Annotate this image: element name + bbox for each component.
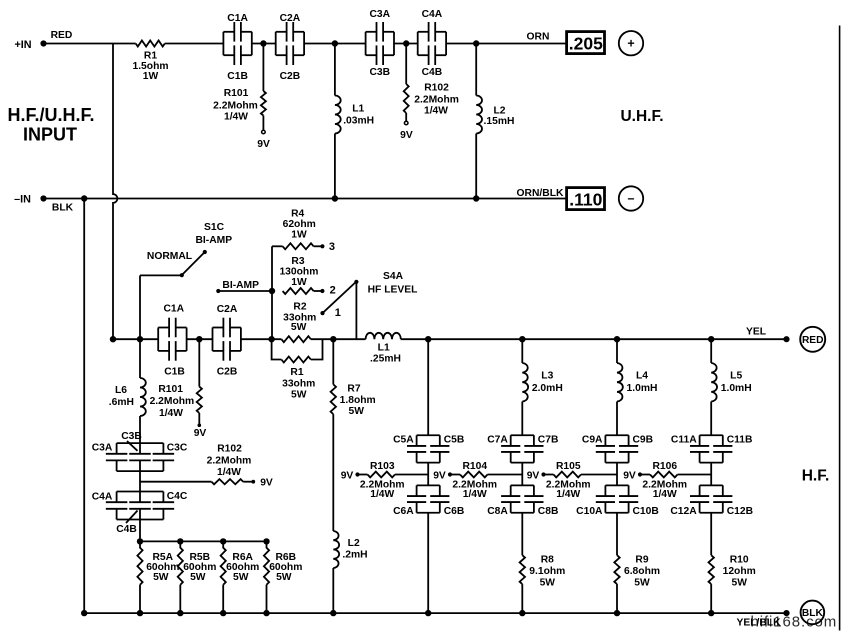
label H.F./U.H.F. INPUT: [7, 105, 94, 145]
svg-text:2: 2: [330, 285, 336, 297]
wire: [710, 402, 712, 436]
svg-text:R4: R4: [291, 209, 304, 220]
capacitor C3A/C3B/C3C bank: [92, 431, 188, 471]
svg-text:.2mH: .2mH: [342, 550, 367, 561]
junction: [403, 40, 409, 46]
svg-text:R2: R2: [293, 302, 306, 313]
resistor R101 (HF): [150, 339, 202, 423]
svg-text:1.0mH: 1.0mH: [627, 383, 658, 394]
wire: [113, 338, 158, 340]
wire: [710, 513, 712, 555]
switch S1C: [140, 222, 232, 339]
svg-text:RED: RED: [51, 30, 73, 41]
svg-text:1.0mH: 1.0mH: [721, 383, 752, 394]
wire: [44, 43, 136, 45]
wire: [710, 463, 712, 486]
svg-text:C9B: C9B: [633, 435, 654, 446]
wire: [616, 513, 618, 555]
wire: [710, 339, 712, 363]
svg-text:9V: 9V: [341, 470, 354, 481]
capacitor C4A/C4B/C4C bank: [92, 491, 188, 535]
svg-text:L4: L4: [636, 371, 648, 382]
svg-text:.25mH: .25mH: [370, 354, 401, 365]
wire: [304, 43, 366, 45]
svg-text:5W: 5W: [291, 322, 307, 333]
junction: [332, 40, 338, 46]
resistor R5A: [137, 541, 179, 613]
wire: [616, 402, 618, 436]
svg-text:R3: R3: [291, 256, 304, 267]
capacitor C12A/C12B: [670, 485, 753, 516]
svg-text:RED: RED: [802, 335, 824, 346]
junction: [473, 195, 479, 201]
wire: [521, 584, 523, 613]
junction: [81, 610, 87, 616]
inductor L6: [109, 339, 146, 416]
node -IN: [14, 194, 74, 214]
svg-text:9V: 9V: [260, 478, 273, 489]
resistor R106: [642, 461, 711, 500]
svg-text:2.2Mohm: 2.2Mohm: [150, 396, 195, 407]
wire: [252, 43, 276, 45]
svg-text:INPUT: INPUT: [23, 125, 77, 145]
pin 3: [320, 241, 335, 253]
wire: [521, 402, 523, 436]
junction: [110, 336, 116, 342]
svg-text:.205: .205: [569, 33, 603, 53]
terminal -: [619, 186, 643, 210]
svg-text:R8: R8: [541, 555, 554, 566]
resistor R6A: [221, 541, 260, 613]
wire: [140, 540, 267, 542]
svg-text:C7B: C7B: [538, 435, 559, 446]
power 9V: [341, 470, 368, 481]
junction: [268, 336, 274, 342]
node YEL: [746, 327, 790, 343]
svg-text:5W: 5W: [153, 572, 169, 583]
svg-text:S4A: S4A: [383, 271, 404, 282]
resistor R5B: [178, 541, 217, 613]
junction: [614, 610, 620, 616]
power 9V: [623, 470, 650, 481]
junction: [330, 610, 336, 616]
wire: [521, 463, 523, 486]
svg-text:ORN/BLK: ORN/BLK: [517, 188, 564, 199]
svg-text:1/4W: 1/4W: [556, 489, 580, 500]
svg-text:C12B: C12B: [727, 506, 753, 517]
svg-text:C10A: C10A: [576, 506, 603, 517]
svg-text:R1: R1: [144, 50, 157, 61]
svg-text:NORMAL: NORMAL: [147, 251, 192, 262]
svg-text:C5A: C5A: [393, 435, 414, 446]
resistor R7: [331, 384, 376, 418]
svg-text:H.F.: H.F.: [802, 467, 830, 484]
svg-text:C8A: C8A: [487, 506, 508, 517]
capacitor C10A/C10B: [576, 485, 659, 516]
svg-text:1W: 1W: [291, 277, 307, 288]
wire: [332, 414, 334, 531]
svg-text:C5B: C5B: [444, 435, 465, 446]
inductor L3: [522, 363, 562, 402]
wire: [83, 199, 85, 614]
svg-text:R9: R9: [635, 555, 648, 566]
svg-text:C2A: C2A: [217, 304, 238, 315]
svg-text:L2: L2: [348, 538, 360, 549]
svg-text:1/4W: 1/4W: [370, 489, 394, 500]
junction: [614, 336, 620, 342]
svg-text:L3: L3: [541, 371, 553, 382]
svg-text:+: +: [627, 37, 634, 51]
svg-text:R103: R103: [370, 461, 395, 472]
power 9V: [251, 478, 273, 489]
capacitor C11A/C11B: [671, 435, 753, 463]
svg-text:C11A: C11A: [671, 435, 697, 446]
terminal RED: [800, 327, 825, 352]
wire: [271, 246, 273, 339]
svg-text:–: –: [628, 191, 635, 205]
svg-text:C3A: C3A: [369, 9, 390, 20]
wire: [113, 44, 117, 340]
svg-text:S1C: S1C: [204, 222, 225, 233]
svg-text:9V: 9V: [527, 470, 540, 481]
svg-text:–IN: –IN: [14, 194, 31, 206]
svg-text:1/4W: 1/4W: [463, 489, 487, 500]
svg-text:C3A: C3A: [92, 443, 113, 454]
wire: [616, 339, 618, 363]
capacitor C2A/C2B: [276, 13, 304, 82]
inductor L2: [476, 44, 514, 199]
svg-text:5W: 5W: [348, 406, 364, 417]
svg-text:130ohm: 130ohm: [279, 267, 318, 278]
junction: [137, 538, 143, 544]
svg-text:L1: L1: [352, 104, 364, 115]
resistor R8: [520, 555, 566, 589]
svg-text:2.2Mohm: 2.2Mohm: [414, 95, 459, 106]
inductor L4: [617, 363, 657, 402]
svg-text:5W: 5W: [291, 390, 307, 401]
node +IN: [14, 30, 72, 51]
junction: [425, 336, 431, 342]
resistor R3: [279, 256, 320, 294]
svg-text:R101: R101: [224, 88, 249, 99]
svg-text:C6B: C6B: [444, 506, 465, 517]
inductor L2 (.2mH): [333, 531, 367, 568]
svg-text:.15mH: .15mH: [484, 116, 515, 127]
svg-text:1/4W: 1/4W: [653, 489, 677, 500]
svg-text:12ohm: 12ohm: [723, 566, 756, 577]
terminal .110: [567, 188, 605, 210]
svg-text:C6A: C6A: [393, 506, 414, 517]
wire: [446, 43, 566, 45]
junction: [177, 538, 183, 544]
svg-text:YEL/BLK: YEL/BLK: [736, 618, 781, 629]
capacitor C9A/C9B: [582, 435, 653, 463]
svg-text:R102: R102: [424, 83, 449, 94]
resistor R102: [404, 44, 459, 122]
svg-text:C2B: C2B: [280, 71, 301, 82]
svg-text:9V: 9V: [623, 470, 636, 481]
terminal +: [619, 31, 643, 55]
wire: [44, 198, 567, 200]
junction: [708, 336, 714, 342]
svg-text:U.H.F.: U.H.F.: [620, 108, 663, 125]
svg-text:5W: 5W: [731, 578, 747, 589]
junction: [519, 610, 525, 616]
svg-text:2.2Mohm: 2.2Mohm: [213, 101, 258, 112]
svg-text:BLK: BLK: [802, 608, 824, 619]
wire: [427, 463, 429, 486]
svg-text:5W: 5W: [540, 578, 556, 589]
junction: [708, 610, 714, 616]
wire: [139, 416, 141, 443]
wire: [332, 568, 334, 613]
svg-text:C4A: C4A: [92, 492, 113, 503]
svg-text:C9A: C9A: [582, 435, 603, 446]
capacitor C1A/C1B: [223, 13, 251, 82]
wire: [394, 43, 418, 45]
wire: [84, 612, 786, 614]
svg-text:9V: 9V: [194, 428, 207, 439]
svg-text:.6mH: .6mH: [109, 397, 134, 408]
pin 2: [320, 285, 335, 297]
terminal BLK: [801, 601, 825, 625]
wire: [427, 339, 429, 435]
svg-text:1/4W: 1/4W: [217, 467, 241, 478]
svg-text:1.8ohm: 1.8ohm: [340, 395, 376, 406]
inductor L1: [335, 44, 374, 199]
svg-text:R106: R106: [652, 461, 677, 472]
svg-text:1W: 1W: [143, 71, 159, 82]
resistor R2: [281, 302, 316, 343]
svg-text:C3B: C3B: [369, 67, 390, 78]
svg-text:C3B: C3B: [121, 431, 142, 442]
svg-text:5W: 5W: [634, 578, 650, 589]
svg-text:C3C: C3C: [167, 443, 188, 454]
capacitor C2A/C2B (HF): [213, 304, 241, 378]
svg-text:2.0mH: 2.0mH: [532, 383, 563, 394]
svg-text:9V: 9V: [400, 130, 413, 141]
svg-text:5W: 5W: [190, 572, 206, 583]
svg-text:1W: 1W: [291, 229, 307, 240]
svg-text:R101: R101: [158, 384, 183, 395]
svg-text:L6: L6: [115, 385, 127, 396]
svg-text:C1A: C1A: [227, 13, 248, 24]
resistor R105: [546, 461, 617, 500]
wire: [427, 513, 429, 613]
svg-text:C2A: C2A: [280, 13, 301, 24]
capacitor C6A/C6B: [393, 485, 464, 516]
svg-text:L1: L1: [378, 343, 390, 354]
svg-text:C8B: C8B: [538, 506, 559, 517]
junction: [332, 195, 338, 201]
svg-text:BI-AMP: BI-AMP: [222, 280, 259, 291]
resistor R6B: [264, 541, 303, 613]
wire: [616, 463, 618, 486]
junction: [473, 40, 479, 46]
resistor R103: [360, 461, 428, 500]
svg-text:R7: R7: [347, 384, 360, 395]
resistor R101: [213, 44, 266, 131]
svg-text:R102: R102: [217, 444, 242, 455]
switch S4A: [320, 271, 417, 339]
svg-text:R1: R1: [290, 367, 303, 378]
svg-text:ORN: ORN: [527, 32, 550, 43]
inductor L5: [711, 363, 751, 402]
inductor L1 (.25mH): [366, 333, 401, 365]
node YEL/BLK: [736, 610, 789, 629]
junction: [330, 336, 336, 342]
junction: [425, 610, 431, 616]
svg-text:C4B: C4B: [116, 524, 137, 535]
svg-text:C1A: C1A: [163, 304, 184, 315]
svg-text:+IN: +IN: [14, 39, 31, 51]
capacitor C7A/C7B: [487, 435, 558, 463]
svg-text:9V: 9V: [257, 139, 270, 150]
junction: [519, 336, 525, 342]
power 9V: [257, 130, 270, 150]
junction: [220, 538, 226, 544]
junction: [260, 40, 266, 46]
svg-text:2.2Mohm: 2.2Mohm: [207, 456, 252, 467]
capacitor C1A/C1B (HF): [158, 304, 186, 378]
wire: [616, 584, 618, 613]
svg-text:C2B: C2B: [217, 367, 238, 378]
svg-text:33ohm: 33ohm: [282, 379, 315, 390]
svg-text:6.8ohm: 6.8ohm: [624, 566, 660, 577]
wire: [710, 584, 712, 613]
junction: [220, 610, 226, 616]
svg-text:L2: L2: [494, 106, 506, 117]
svg-text:C1B: C1B: [227, 71, 248, 82]
svg-text:1/4W: 1/4W: [159, 408, 183, 419]
terminal .205: [567, 32, 605, 54]
svg-text:R10: R10: [730, 555, 749, 566]
wire: [165, 43, 224, 45]
svg-text:C10B: C10B: [633, 506, 659, 517]
power 9V: [400, 121, 413, 141]
resistor R4: [272, 209, 321, 250]
resistor R1: [132, 41, 168, 83]
wire: [521, 339, 523, 363]
capacitor C5A/C5B: [393, 435, 464, 463]
svg-text:9V: 9V: [433, 470, 446, 481]
junction: [81, 195, 87, 201]
resistor R10: [709, 555, 756, 589]
wire: [521, 513, 523, 555]
svg-text:9.1ohm: 9.1ohm: [529, 566, 565, 577]
junction: [137, 610, 143, 616]
svg-text:HF LEVEL: HF LEVEL: [368, 285, 418, 296]
svg-text:5W: 5W: [276, 572, 292, 583]
power 9V: [194, 423, 207, 439]
junction: [196, 336, 202, 342]
resistor R102 (HF): [140, 444, 252, 485]
junction: [137, 336, 143, 342]
svg-text:R105: R105: [556, 461, 581, 472]
svg-text:L5: L5: [730, 371, 742, 382]
wire: [139, 520, 141, 542]
power 9V: [527, 470, 554, 481]
junction: [263, 538, 269, 544]
junction: [177, 610, 183, 616]
capacitor C3A/C3B: [366, 9, 394, 78]
power 9V: [433, 470, 460, 481]
node BI-AMP: [216, 280, 272, 293]
resistor R1 (33ohm): [272, 339, 323, 400]
wire: [332, 339, 334, 384]
svg-text:BI-AMP: BI-AMP: [195, 235, 232, 246]
resistor R104: [452, 461, 522, 500]
svg-text:H.F./U.H.F.: H.F./U.H.F.: [7, 105, 94, 125]
svg-text:1/4W: 1/4W: [224, 112, 248, 123]
svg-text:C11B: C11B: [727, 435, 753, 446]
svg-text:BLK: BLK: [52, 203, 74, 214]
svg-text:1/4W: 1/4W: [424, 106, 448, 117]
svg-text:C4C: C4C: [167, 491, 188, 502]
wire: [139, 471, 141, 492]
svg-text:5W: 5W: [233, 572, 249, 583]
junction: [269, 288, 275, 294]
resistor R9: [614, 555, 660, 589]
svg-text:C12A: C12A: [670, 506, 697, 517]
svg-text:C7A: C7A: [487, 435, 508, 446]
svg-text:.110: .110: [569, 189, 602, 209]
capacitor C8A/C8B: [487, 485, 558, 516]
svg-text:YEL: YEL: [746, 327, 766, 338]
capacitor C4A/C4B: [418, 9, 446, 78]
svg-text:C4B: C4B: [422, 67, 443, 78]
svg-text:1: 1: [335, 307, 341, 319]
svg-text:R104: R104: [462, 461, 487, 472]
svg-text:.03mH: .03mH: [343, 116, 374, 127]
svg-text:C1B: C1B: [164, 367, 185, 378]
svg-text:C4A: C4A: [422, 9, 443, 20]
junction: [263, 610, 269, 616]
svg-text:3: 3: [329, 241, 335, 253]
